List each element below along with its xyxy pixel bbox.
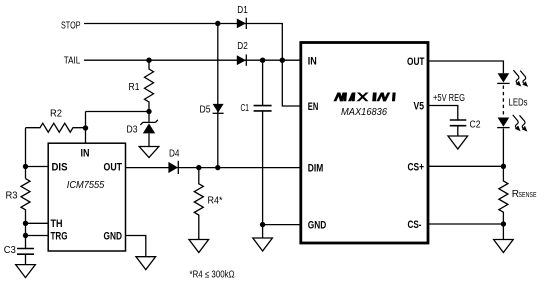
node R1/D3 junction bbox=[146, 109, 151, 114]
diode D2 bbox=[237, 41, 248, 66]
svg-text:TAIL: TAIL bbox=[64, 56, 81, 67]
LED arrows (top) bbox=[513, 70, 528, 87]
node TAIL/EN junction bbox=[280, 58, 285, 63]
node TAIL/R1 junction bbox=[146, 58, 151, 63]
svg-text:R1: R1 bbox=[129, 82, 140, 93]
svg-text:TH: TH bbox=[51, 218, 63, 230]
wire C1 branch vertical bbox=[262, 60, 264, 224]
resistor R2 bbox=[26, 109, 86, 133]
wire STOP rail bbox=[84, 24, 282, 61]
LED D6 (top) bbox=[497, 73, 509, 83]
diode D4 bbox=[168, 149, 179, 175]
svg-text:D5: D5 bbox=[200, 105, 211, 116]
resistor R4 bbox=[194, 168, 222, 240]
svg-text:ICM7555: ICM7555 bbox=[67, 179, 105, 191]
svg-text:TRG: TRG bbox=[51, 231, 68, 243]
svg-text:*R4 ≤ 300kΩ: *R4 ≤ 300kΩ bbox=[190, 269, 235, 280]
wire 7555 GND wire bbox=[126, 236, 146, 257]
wire TRG pin wire bbox=[26, 235, 49, 237]
wire dashed LED string bbox=[502, 86, 504, 117]
LED D7 (bottom) bbox=[497, 118, 509, 128]
svg-text:GND: GND bbox=[104, 231, 123, 243]
ground below ICM7555 GND bbox=[136, 257, 156, 270]
wire CS- wire bbox=[428, 223, 503, 225]
wire LED2 to CS+ bbox=[502, 129, 504, 167]
svg-text:SENSE: SENSE bbox=[519, 190, 537, 199]
svg-text:CS-: CS- bbox=[408, 219, 422, 231]
svg-text:D3: D3 bbox=[127, 125, 138, 136]
svg-text:D2: D2 bbox=[237, 41, 248, 52]
svg-text:STOP: STOP bbox=[61, 21, 81, 32]
wire 7555 IN vertical bbox=[85, 112, 87, 144]
ground below C3 bbox=[16, 265, 36, 278]
svg-text:IN: IN bbox=[308, 55, 317, 67]
ground below C2 bbox=[448, 136, 468, 149]
diode D1 bbox=[237, 5, 248, 29]
svg-text:GND: GND bbox=[308, 220, 327, 232]
svg-text:IN: IN bbox=[81, 147, 90, 159]
svg-text:OUT: OUT bbox=[407, 56, 425, 68]
node DIM/R4 junction bbox=[196, 165, 201, 170]
wire D5 branch vertical bbox=[217, 24, 219, 168]
zener D3 bbox=[127, 112, 158, 147]
ground below R4 bbox=[189, 240, 209, 253]
wire IN node horizontal (R1/D3 to 7555 IN) bbox=[86, 111, 150, 113]
node CS-/RSENSE junction bbox=[501, 221, 506, 226]
svg-text:EN: EN bbox=[308, 101, 319, 113]
svg-text:R4*: R4* bbox=[208, 196, 223, 207]
wire left vertical rail (R2 to C3) bbox=[25, 128, 27, 249]
svg-text:+5V REG: +5V REG bbox=[433, 93, 465, 104]
resistor R1 bbox=[129, 60, 154, 111]
svg-text:OUT: OUT bbox=[104, 162, 123, 174]
svg-text:MAX16836: MAX16836 bbox=[341, 107, 387, 118]
op-amp U1 ICM7555 box bbox=[48, 143, 125, 251]
svg-text:C1: C1 bbox=[241, 103, 250, 114]
wire 7555 OUT / DIM rail bbox=[126, 167, 302, 169]
wire DIS pin wire bbox=[26, 166, 49, 168]
wire EN branch bbox=[282, 60, 301, 106]
ground below C1 bbox=[253, 225, 273, 251]
wire V5 wire bbox=[428, 106, 458, 120]
resistor R3 bbox=[6, 179, 31, 210]
resistor RSENSE bbox=[499, 166, 537, 224]
svg-text:LEDs: LEDs bbox=[509, 97, 528, 108]
svg-text:CS+: CS+ bbox=[408, 161, 425, 173]
node CS+/RSENSE junction bbox=[501, 164, 506, 169]
svg-text:C3: C3 bbox=[4, 245, 16, 256]
LED arrows (bottom) bbox=[513, 115, 528, 132]
logo MAXIM bbox=[333, 93, 395, 102]
wire CS+ wire bbox=[428, 165, 503, 167]
node R2/IN junction bbox=[83, 125, 88, 130]
node DIM/D5 junction bbox=[215, 165, 220, 170]
node TAIL/C1 junction bbox=[260, 58, 265, 63]
capacitor C2 bbox=[450, 120, 481, 137]
op-amp U2 MAX16836 box bbox=[301, 43, 428, 244]
svg-text:DIM: DIM bbox=[308, 163, 324, 175]
svg-text:D4: D4 bbox=[169, 149, 180, 160]
node TRG junction bbox=[23, 233, 28, 238]
svg-text:C2: C2 bbox=[470, 120, 481, 131]
svg-text:DIS: DIS bbox=[52, 162, 68, 174]
wire TH pin wire bbox=[26, 222, 49, 224]
wire MAX16836 GND wire bbox=[263, 224, 301, 226]
ground below D3 bbox=[139, 147, 159, 158]
node TH junction bbox=[23, 221, 28, 226]
svg-text:R3: R3 bbox=[6, 191, 18, 202]
node GND/C1 junction bbox=[260, 222, 265, 227]
capacitor C3 bbox=[4, 245, 34, 265]
node DIS junction bbox=[23, 164, 28, 169]
capacitor C1 bbox=[241, 103, 272, 114]
diode D5 bbox=[200, 104, 224, 116]
svg-text:R2: R2 bbox=[50, 109, 62, 120]
node STOP/D5 junction bbox=[215, 21, 220, 26]
svg-text:D1: D1 bbox=[237, 5, 248, 16]
wire OUT to LED string bbox=[428, 61, 503, 73]
wire TAIL rail to MAX16836 IN bbox=[84, 59, 301, 61]
svg-text:V5: V5 bbox=[414, 101, 425, 113]
ground below RSENSE bbox=[494, 224, 514, 253]
